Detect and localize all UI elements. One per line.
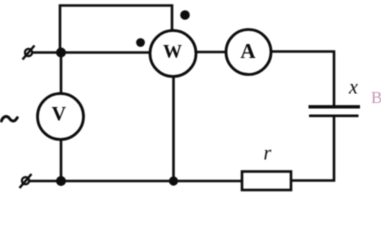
svg-text:V: V — [52, 103, 67, 125]
svg-text:W: W — [163, 41, 182, 62]
svg-text:A: A — [240, 39, 256, 63]
svg-text:x: x — [348, 77, 358, 99]
svg-text:B: B — [371, 88, 381, 107]
svg-text:r: r — [264, 143, 272, 165]
